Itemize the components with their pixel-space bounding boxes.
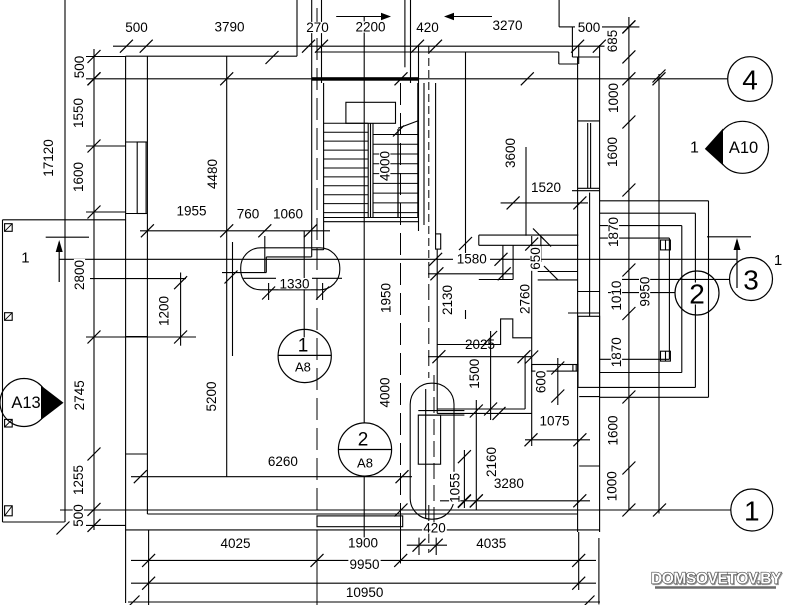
- svg-text:420: 420: [423, 521, 446, 536]
- svg-text:2160: 2160: [484, 447, 499, 477]
- svg-text:DOMSOVETOV.BY: DOMSOVETOV.BY: [651, 571, 782, 588]
- svg-text:1520: 1520: [531, 180, 561, 195]
- svg-text:1055: 1055: [447, 473, 462, 503]
- svg-text:2200: 2200: [355, 20, 385, 35]
- svg-text:9950: 9950: [637, 277, 652, 307]
- svg-text:2800: 2800: [72, 260, 87, 290]
- svg-text:6260: 6260: [268, 454, 298, 469]
- svg-text:650: 650: [528, 247, 543, 270]
- svg-text:4: 4: [742, 64, 758, 95]
- svg-text:1: 1: [774, 252, 782, 269]
- svg-text:1950: 1950: [379, 283, 394, 313]
- svg-text:3600: 3600: [503, 138, 518, 168]
- svg-text:9950: 9950: [349, 557, 379, 572]
- svg-text:A10: A10: [729, 139, 758, 157]
- svg-text:A8: A8: [295, 359, 311, 374]
- svg-text:500: 500: [578, 20, 601, 35]
- svg-text:1075: 1075: [539, 414, 569, 429]
- svg-text:1000: 1000: [605, 471, 620, 501]
- svg-text:1: 1: [21, 249, 29, 266]
- svg-text:2745: 2745: [72, 380, 87, 410]
- svg-text:270: 270: [306, 20, 329, 35]
- svg-text:500: 500: [72, 56, 87, 79]
- svg-text:3280: 3280: [494, 476, 524, 491]
- svg-text:1000: 1000: [606, 83, 621, 113]
- svg-text:1600: 1600: [605, 415, 620, 445]
- svg-text:5200: 5200: [204, 381, 219, 411]
- svg-text:2130: 2130: [440, 285, 455, 315]
- svg-text:1: 1: [744, 495, 760, 526]
- svg-text:1870: 1870: [609, 337, 624, 367]
- svg-text:2760: 2760: [518, 284, 533, 314]
- svg-text:1060: 1060: [273, 207, 303, 222]
- svg-text:1550: 1550: [71, 98, 86, 128]
- svg-text:2: 2: [689, 278, 705, 309]
- svg-text:1500: 1500: [467, 359, 482, 389]
- svg-text:1955: 1955: [176, 204, 206, 219]
- svg-text:1010: 1010: [609, 281, 624, 311]
- svg-text:500: 500: [71, 504, 86, 527]
- svg-text:1600: 1600: [605, 137, 620, 167]
- svg-text:685: 685: [605, 30, 620, 53]
- svg-text:A13: A13: [11, 394, 40, 412]
- svg-text:4000: 4000: [378, 377, 393, 407]
- svg-text:1580: 1580: [457, 251, 487, 266]
- svg-text:1600: 1600: [71, 162, 86, 192]
- svg-text:1900: 1900: [348, 536, 378, 551]
- svg-text:2: 2: [358, 430, 369, 451]
- svg-text:4480: 4480: [205, 159, 220, 189]
- svg-text:1870: 1870: [606, 217, 621, 247]
- svg-text:1: 1: [298, 336, 309, 357]
- svg-text:4000: 4000: [378, 151, 393, 181]
- svg-text:4025: 4025: [220, 536, 250, 551]
- svg-text:760: 760: [237, 207, 260, 222]
- svg-text:A8: A8: [357, 455, 373, 470]
- svg-text:420: 420: [416, 20, 439, 35]
- svg-text:17120: 17120: [41, 139, 56, 177]
- svg-text:4035: 4035: [476, 536, 506, 551]
- svg-text:1200: 1200: [157, 296, 172, 326]
- svg-text:1: 1: [690, 140, 699, 157]
- svg-text:500: 500: [125, 20, 148, 35]
- svg-text:2025: 2025: [465, 337, 495, 352]
- svg-text:1330: 1330: [279, 276, 309, 291]
- svg-text:3790: 3790: [214, 20, 244, 35]
- svg-text:600: 600: [534, 371, 549, 394]
- svg-text:3: 3: [743, 264, 759, 295]
- svg-text:1255: 1255: [71, 465, 86, 495]
- svg-text:10950: 10950: [346, 585, 384, 600]
- svg-text:3270: 3270: [492, 18, 522, 33]
